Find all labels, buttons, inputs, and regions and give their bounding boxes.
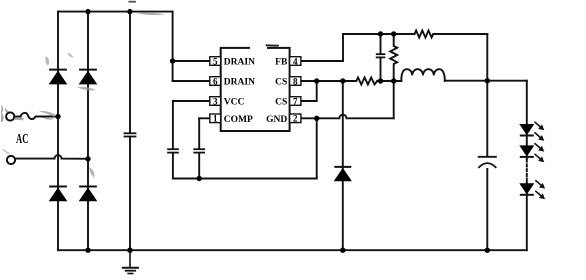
svg-text:5: 5 — [213, 56, 218, 66]
svg-text:3: 3 — [213, 96, 218, 106]
pin 6 — [210, 76, 221, 86]
wire COMP cap upper — [198, 118, 200, 149]
pin 4 — [290, 56, 301, 66]
node CS row / diode branch — [340, 78, 345, 83]
pin 3 — [210, 96, 221, 106]
wire bridge rail B — [87, 12, 89, 251]
node COMP cap / ground return — [197, 176, 202, 181]
node bottom rail / rail B — [85, 248, 90, 253]
wire pin4 lead — [301, 34, 343, 61]
capacitor C2 (VCC) — [167, 149, 179, 152]
wire snubber cap branch upper — [380, 34, 382, 54]
wire snubber cap branch lower — [380, 57, 382, 81]
capacitor C1 (bulk) — [124, 133, 137, 136]
capacitor C3 (COMP) — [193, 149, 205, 152]
svg-text:GND: GND — [266, 115, 287, 125]
svg-text:DRAIN: DRAIN — [224, 78, 255, 88]
svg-text:CS: CS — [275, 78, 287, 88]
node CS row / R3 — [391, 78, 396, 83]
wire top FB rail right — [433, 33, 487, 35]
wire COMP cap lower — [198, 153, 200, 178]
pin 8 — [290, 76, 301, 86]
node pin7/pin8 — [314, 78, 319, 83]
wire AC live lead — [14, 116, 20, 118]
diode D4 — [79, 187, 98, 202]
ground — [122, 250, 139, 273]
wire pin8 lead — [301, 80, 356, 82]
node pin2 — [314, 116, 319, 121]
wire output riser upper — [486, 34, 488, 157]
wire bridge rail A — [57, 12, 59, 251]
pin 2 — [290, 114, 301, 124]
svg-text:1: 1 — [213, 114, 218, 124]
wire GND riser — [316, 118, 318, 178]
op-amp U1 (controller IC body) — [221, 48, 290, 131]
wire LED column top — [526, 81, 528, 159]
svg-text:AC: AC — [16, 132, 28, 147]
diode D5 (freewheel) — [334, 167, 352, 181]
node junction dots — [55, 9, 490, 253]
wire GND row with hop over diode branch — [317, 115, 394, 119]
capacitor C4 (snubber) — [376, 54, 386, 57]
wire pin7 lead — [301, 81, 317, 101]
LED LD2 — [519, 143, 543, 162]
node FB rail / R3 — [391, 31, 396, 36]
svg-text:4: 4 — [293, 56, 298, 66]
capacitor C5 (output, curved plate) — [478, 157, 497, 168]
wire output riser lower — [486, 169, 488, 250]
wire bulk cap line lower — [129, 137, 131, 250]
wire pin2 lead — [301, 117, 317, 119]
wire inductor to LED column — [445, 80, 527, 82]
wire AC neutral lead with hop over rail A — [15, 155, 88, 159]
svg-text:7: 7 — [293, 96, 298, 106]
wire top rail — [58, 11, 173, 13]
svg-text:CS: CS — [275, 98, 287, 108]
svg-text:6: 6 — [213, 76, 218, 86]
diode D2 — [79, 70, 98, 85]
inductor L1 — [401, 69, 444, 81]
wire bulk cap line upper — [129, 12, 131, 133]
resistor R2 — [356, 78, 377, 85]
svg-text:8: 8 — [293, 76, 298, 86]
node FB rail / snubber cap — [378, 31, 383, 36]
svg-text:COMP: COMP — [224, 115, 253, 125]
node top rail / rail B — [85, 9, 90, 14]
wire GND row riser to CS row — [393, 81, 395, 118]
wire VCC lead — [173, 100, 210, 102]
node bottom rail / diode branch — [340, 248, 345, 253]
LED LD3 — [519, 180, 544, 199]
wire CS row to inductor — [377, 80, 401, 82]
node drain branch — [170, 58, 175, 63]
wire COMP lead — [199, 117, 210, 119]
diode D1 — [49, 70, 68, 85]
scan artifacts (decorative) — [1, 1, 279, 178]
pin 1 — [210, 114, 221, 124]
fuse F1 — [21, 113, 59, 119]
pin 7 — [290, 96, 301, 106]
wire LED column dotted section — [526, 160, 528, 179]
svg-text:FB: FB — [275, 58, 288, 68]
wire top FB rail left — [343, 33, 415, 35]
resistor R3 — [390, 34, 397, 81]
node bottom rail / output riser — [485, 248, 490, 253]
wire VCC cap upper — [172, 101, 174, 149]
wire cap ground return — [173, 178, 317, 180]
node CS row / snubber cap — [378, 78, 383, 83]
pin 5 — [210, 56, 221, 66]
svg-text:VCC: VCC — [224, 98, 245, 108]
wire LED column bottom — [526, 179, 528, 251]
resistor R1 — [415, 31, 434, 38]
wire VCC cap lower — [172, 153, 174, 178]
wire drain branch vertical — [172, 12, 174, 81]
node top rail / bulk cap — [127, 9, 132, 14]
wire pin6 lead — [173, 80, 210, 82]
AC terminal top — [6, 112, 14, 120]
LED LD1 — [519, 122, 543, 141]
node output riser / LED feed — [485, 78, 490, 83]
wire bottom rail — [58, 249, 527, 251]
svg-text:2: 2 — [293, 114, 298, 124]
wire pin5 lead — [173, 60, 210, 62]
svg-text:DRAIN: DRAIN — [224, 58, 255, 68]
node AC neutral / rail B — [85, 156, 90, 161]
AC terminal bottom — [7, 156, 15, 164]
diode D3 — [49, 187, 68, 202]
node bottom rail / bulk cap — [127, 248, 132, 253]
node AC live / rail A — [55, 114, 60, 119]
wire freewheel diode branch — [342, 81, 344, 250]
